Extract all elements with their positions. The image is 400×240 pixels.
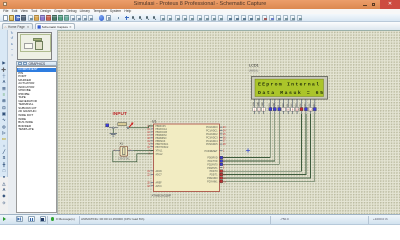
- svg-text:PD0/RXD: PD0/RXD: [207, 157, 217, 159]
- svg-text:PC0/ADC0: PC0/ADC0: [206, 126, 218, 129]
- svg-text:PC3/ADC3: PC3/ADC3: [206, 136, 218, 139]
- svg-text:ADC7: ADC7: [156, 173, 163, 176]
- svg-text:PD1/TXD: PD1/TXD: [208, 161, 218, 163]
- svg-text:X1: X1: [120, 141, 124, 145]
- svg-text:22: 22: [147, 173, 150, 176]
- svg-text:EEprom Internal: EEprom Internal: [258, 81, 319, 87]
- svg-text:PC2/ADC2: PC2/ADC2: [206, 133, 218, 136]
- svg-text:CRYSTAL: CRYSTAL: [118, 157, 130, 160]
- svg-text:AVCC: AVCC: [156, 184, 163, 187]
- svg-text:E: E: [278, 104, 280, 106]
- svg-text:2: 2: [130, 149, 131, 151]
- svg-text:PC6/RESET: PC6/RESET: [205, 150, 219, 152]
- svg-text:PD6/AIN0: PD6/AIN0: [207, 177, 218, 180]
- svg-text:PD5/T1: PD5/T1: [210, 174, 219, 176]
- svg-text:RS: RS: [269, 102, 271, 106]
- svg-text:D0: D0: [282, 102, 284, 106]
- svg-text:D6: D6: [309, 102, 311, 106]
- svg-text:PD2/INT0: PD2/INT0: [207, 164, 218, 166]
- svg-text:VEE: VEE: [262, 101, 264, 106]
- svg-text:Data Masuk = 65: Data Masuk = 65: [258, 89, 323, 95]
- svg-text:18: 18: [147, 184, 150, 187]
- svg-text:8: 8: [149, 152, 151, 155]
- svg-text:LM016L: LM016L: [249, 68, 259, 72]
- svg-text:PC5/ADC5: PC5/ADC5: [206, 143, 218, 146]
- svg-text:XTAL1: XTAL1: [156, 149, 164, 152]
- svg-text:D4: D4: [300, 102, 302, 106]
- svg-text:U1: U1: [152, 119, 156, 123]
- svg-text:LCD1: LCD1: [249, 63, 259, 67]
- svg-text:PB5/SCK: PB5/SCK: [156, 141, 166, 143]
- svg-text:ADC6: ADC6: [156, 170, 163, 173]
- svg-text:PB3/MOSI: PB3/MOSI: [156, 135, 167, 137]
- svg-text:D2: D2: [291, 102, 293, 106]
- svg-text:ATMEGA328P: ATMEGA328P: [152, 193, 171, 197]
- svg-text:AREF: AREF: [156, 181, 163, 184]
- svg-text:PD3/INT1: PD3/INT1: [207, 167, 218, 169]
- svg-text:PB0/ICP1: PB0/ICP1: [156, 126, 167, 128]
- svg-text:INPUT: INPUT: [113, 111, 127, 117]
- svg-text:PB7/TOSC2: PB7/TOSC2: [156, 146, 169, 148]
- svg-text:VSS: VSS: [253, 101, 255, 106]
- svg-text:D3: D3: [296, 102, 298, 106]
- svg-text:PD7/AIN1: PD7/AIN1: [207, 180, 218, 183]
- svg-text:PB2/OC1B: PB2/OC1B: [156, 132, 168, 134]
- svg-text:D5: D5: [305, 102, 307, 106]
- svg-text:PB6/TOSC1: PB6/TOSC1: [156, 144, 169, 146]
- svg-text:28: 28: [223, 143, 226, 146]
- svg-text:PC1/ADC1: PC1/ADC1: [206, 129, 218, 132]
- svg-text:PB4/MISO: PB4/MISO: [156, 138, 167, 140]
- svg-text:5: 5: [223, 166, 225, 169]
- svg-text:D7: D7: [313, 102, 315, 106]
- svg-text:PD4/T0: PD4/T0: [210, 171, 219, 173]
- svg-text:D1: D1: [287, 102, 289, 106]
- svg-text:VDD: VDD: [258, 101, 260, 106]
- svg-text:PB1/OC1A: PB1/OC1A: [156, 128, 168, 131]
- svg-text:XTAL2: XTAL2: [156, 152, 164, 155]
- svg-text:1: 1: [223, 149, 225, 152]
- svg-text:RW: RW: [273, 101, 275, 106]
- svg-text:PC4/ADC4: PC4/ADC4: [206, 139, 218, 142]
- svg-text:1: 1: [114, 149, 115, 151]
